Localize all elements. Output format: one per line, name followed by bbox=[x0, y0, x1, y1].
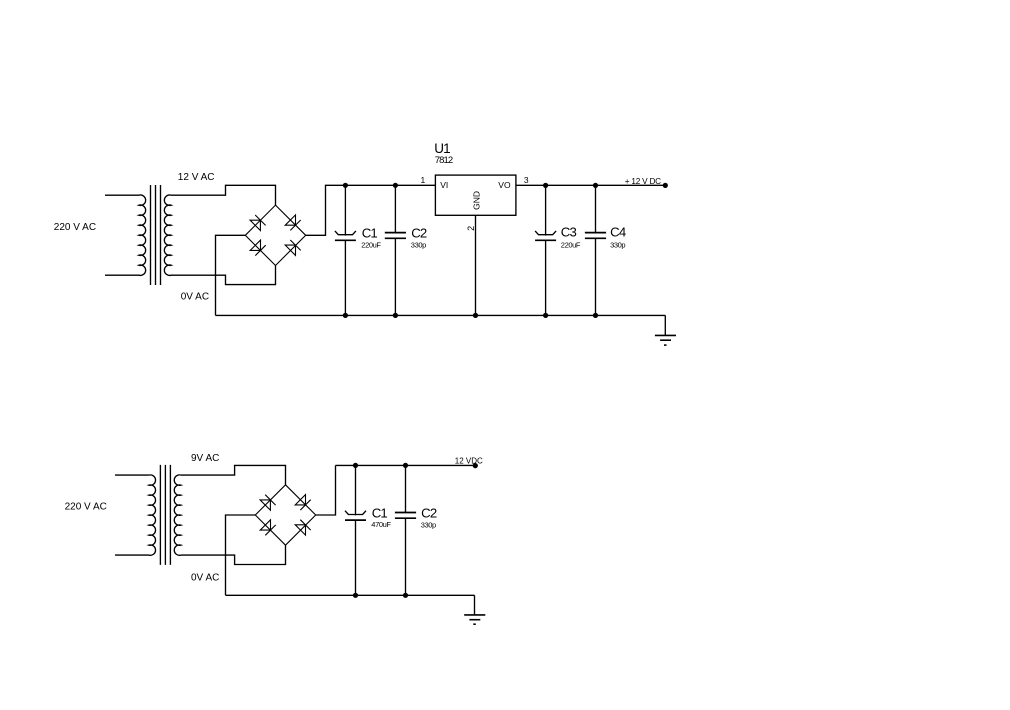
capacitor C3 bbox=[535, 185, 556, 315]
diode D5 top-left bbox=[260, 495, 276, 511]
transformer secondary winding (bottom circuit) bbox=[174, 475, 181, 555]
svg-text:7812: 7812 bbox=[435, 155, 453, 166]
transformer secondary winding (top circuit) bbox=[164, 195, 171, 275]
wire secondary bottom lead to bridge bbox=[171, 266, 276, 285]
node output dot 12 VDC bbox=[473, 463, 478, 468]
wire secondary bottom lead to bridge (bottom) bbox=[181, 545, 286, 564]
svg-text:470uF: 470uF bbox=[371, 520, 391, 529]
wire ground rail (top circuit) bbox=[216, 314, 666, 316]
svg-text:+ 12 V DC: + 12 V DC bbox=[625, 177, 661, 186]
svg-text:C2: C2 bbox=[421, 505, 437, 520]
transformer primary winding (bottom circuit) bbox=[115, 475, 156, 555]
svg-text:220uF: 220uF bbox=[361, 240, 381, 249]
transformer primary winding (top circuit) bbox=[105, 195, 146, 275]
svg-text:9V AC: 9V AC bbox=[191, 453, 219, 464]
wire output rail from regulator bbox=[516, 184, 665, 186]
transformer core (top circuit) bbox=[151, 185, 161, 285]
svg-text:330p: 330p bbox=[421, 521, 436, 530]
wire top rail (bottom circuit) bbox=[336, 464, 476, 466]
diode D7 bottom-left bbox=[260, 520, 276, 536]
capacitor C1 (bottom circuit) bbox=[345, 465, 366, 595]
svg-text:330p: 330p bbox=[610, 241, 625, 250]
wire secondary top lead to bridge (bottom) bbox=[181, 465, 286, 484]
svg-text:330p: 330p bbox=[411, 241, 426, 250]
junction dots ground rail (bottom circuit) bbox=[353, 593, 408, 598]
diode D8 bottom-right bbox=[295, 520, 311, 535]
svg-text:1: 1 bbox=[421, 175, 426, 185]
svg-text:0V AC: 0V AC bbox=[181, 292, 209, 303]
diode D1 top-left bbox=[250, 215, 266, 231]
wire DC plus from bridge right vertex to rail (bottom) bbox=[316, 465, 336, 515]
svg-text:220uF: 220uF bbox=[561, 240, 581, 249]
junction dots top rail (top circuit) bbox=[343, 183, 598, 188]
svg-text:220 V AC: 220 V AC bbox=[65, 502, 107, 513]
svg-text:GND: GND bbox=[471, 191, 481, 210]
svg-text:12 VDC: 12 VDC bbox=[455, 457, 483, 466]
ground symbol (top circuit) bbox=[655, 315, 676, 345]
diode D3 bottom-left bbox=[250, 240, 266, 256]
svg-text:C1: C1 bbox=[362, 226, 378, 241]
capacitor C4 bbox=[585, 185, 606, 315]
bridge rectifier diamond (bottom circuit) bbox=[255, 485, 315, 545]
svg-text:VO: VO bbox=[498, 180, 511, 190]
ground symbol (bottom circuit) bbox=[464, 595, 485, 624]
svg-text:U1: U1 bbox=[434, 141, 450, 156]
transformer core (bottom circuit) bbox=[160, 465, 170, 565]
junction dots top rail (bottom circuit) bbox=[353, 463, 408, 468]
wire DC plus from bridge right vertex to rail bbox=[306, 185, 436, 235]
svg-text:C1: C1 bbox=[372, 505, 388, 520]
wire DC minus from bridge left vertex down bbox=[216, 235, 246, 315]
junction dots ground rail (top circuit) bbox=[343, 313, 598, 318]
capacitor C2 (top circuit) bbox=[385, 185, 406, 315]
diode D6 top-right bbox=[295, 495, 311, 511]
diode D2 top-right bbox=[285, 215, 301, 231]
svg-text:VI: VI bbox=[440, 180, 448, 190]
wire ground rail (bottom circuit) bbox=[226, 594, 475, 596]
wire GND pin 2 down bbox=[475, 215, 477, 315]
op-amp U1 regulator box 7812 bbox=[435, 175, 516, 215]
wire secondary top lead to bridge bbox=[171, 185, 276, 205]
svg-text:C3: C3 bbox=[561, 225, 577, 240]
capacitor C2 (bottom circuit) bbox=[395, 465, 416, 595]
diode D4 bottom-right bbox=[285, 240, 301, 255]
svg-text:12 V AC: 12 V AC bbox=[178, 172, 215, 183]
svg-text:0V AC: 0V AC bbox=[191, 572, 219, 583]
svg-text:3: 3 bbox=[524, 175, 529, 185]
svg-text:C2: C2 bbox=[411, 226, 427, 241]
svg-text:C4: C4 bbox=[610, 225, 626, 240]
capacitor C1 (top circuit) bbox=[335, 185, 356, 315]
bridge rectifier diamond (top circuit) bbox=[245, 205, 305, 265]
node output dot + 12 V DC bbox=[663, 183, 668, 188]
svg-text:220 V AC: 220 V AC bbox=[54, 222, 96, 233]
wire DC minus from bridge left vertex down (bottom) bbox=[226, 515, 256, 595]
svg-text:2: 2 bbox=[466, 226, 476, 231]
